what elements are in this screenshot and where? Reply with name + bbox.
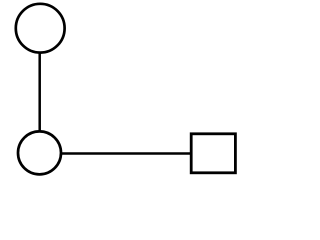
node square: [191, 134, 235, 173]
node circle top: [16, 4, 65, 53]
node circle bottom: [18, 131, 61, 174]
wire horizontal: [62, 152, 192, 155]
wire vertical: [38, 54, 41, 132]
